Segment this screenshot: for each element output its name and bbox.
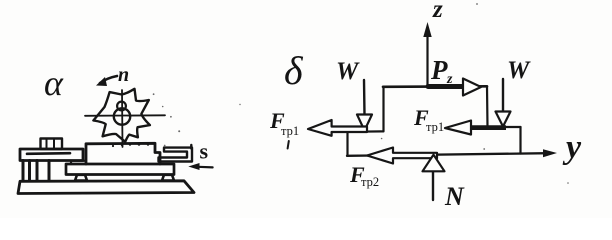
workpiece block <box>86 143 160 164</box>
arbor bracket <box>159 148 193 162</box>
block top edge <box>383 85 487 88</box>
clamp bar <box>20 149 83 161</box>
block right edge <box>486 86 489 127</box>
label Ftr2 <box>349 162 379 189</box>
scan specks <box>153 3 569 184</box>
svg-text:n: n <box>118 64 129 86</box>
cutter hub circle <box>114 108 130 124</box>
friction force Ftr2 (outline arrow) <box>367 148 437 164</box>
svg-text:s: s <box>200 139 209 164</box>
parallel plate under block <box>66 164 174 175</box>
right ledge <box>488 126 521 128</box>
left support pad <box>75 175 87 181</box>
force W right <box>496 79 511 127</box>
feed arrow s <box>188 163 212 170</box>
y axis base line <box>347 149 557 157</box>
right support pad <box>162 175 174 181</box>
svg-text:P: P <box>430 55 448 85</box>
clamp nut <box>41 139 63 150</box>
left flange vertical <box>346 132 348 156</box>
left shoulder step <box>71 161 86 164</box>
label Ftr1 left <box>269 108 299 138</box>
svg-text:W: W <box>336 58 360 85</box>
svg-text:z: z <box>432 0 443 23</box>
z axis <box>423 22 431 87</box>
cutter key circle <box>117 102 126 111</box>
arrow n (rotation) <box>96 76 117 86</box>
friction force Ftr1 left (outline arrow) <box>308 120 367 136</box>
block left edge <box>382 87 384 132</box>
label Pz <box>430 55 453 87</box>
svg-text:W: W <box>507 57 531 84</box>
left ledge <box>347 130 383 133</box>
right flange vertical <box>519 127 521 154</box>
svg-text:δ: δ <box>284 48 304 93</box>
friction force Ftr1 right (outline arrow) <box>445 121 471 135</box>
cutter crosshair horizontal <box>85 114 165 117</box>
svg-text:α: α <box>44 63 64 103</box>
svg-text:тр2: тр2 <box>361 175 379 189</box>
clamp legs <box>23 161 49 182</box>
nut facets <box>47 139 55 149</box>
cutter crosshair vertical <box>121 90 124 147</box>
stray pen mark <box>288 141 289 149</box>
bracket top tick <box>190 145 192 149</box>
force Pz arrow <box>428 79 481 96</box>
svg-text:N: N <box>444 182 465 211</box>
normal force N arrow <box>423 155 445 200</box>
svg-text:y: y <box>562 129 582 166</box>
milling cutter outline <box>93 89 149 142</box>
label Ftr1 right <box>413 105 444 134</box>
svg-text:тр1: тр1 <box>281 124 299 138</box>
machined dots on block top <box>112 143 149 147</box>
machine base table <box>18 181 194 194</box>
clamp bar inner line <box>27 152 70 155</box>
svg-text:z: z <box>446 72 453 87</box>
svg-text:тр1: тр1 <box>426 120 444 134</box>
force W left <box>357 80 372 131</box>
